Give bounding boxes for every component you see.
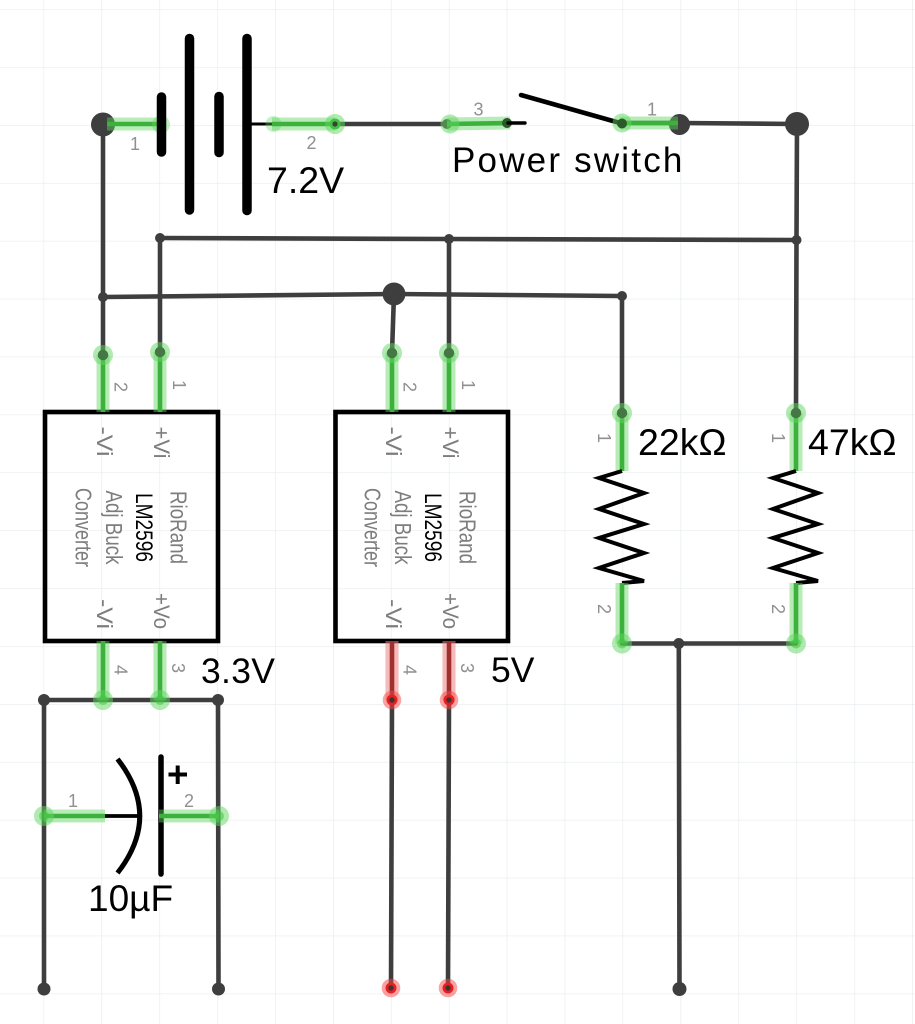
junction x103 y297 [98, 292, 108, 302]
junction x449 y239 [444, 234, 454, 244]
wire node C down to 47k [796, 124, 797, 411]
module U2 pin1 +Vi highlighted [439, 343, 459, 412]
svg-text:2: 2 [306, 133, 316, 153]
junction x796 y240 [792, 235, 802, 245]
wire end dot 44,989 [38, 983, 51, 996]
module U2 red end dot right [439, 979, 458, 998]
svg-text:-Vi: -Vi [92, 427, 117, 457]
svg-text:Converter: Converter [360, 488, 386, 567]
svg-text:5V: 5V [491, 650, 535, 690]
switch S1 pin1 highlighted [613, 114, 679, 133]
svg-text:7.2V: 7.2V [267, 159, 344, 201]
switch S1 lever [521, 95, 620, 123]
svg-text:+Vo: +Vo [438, 593, 463, 629]
junction x160 y238 [155, 233, 165, 243]
capacitor C1 pin2 highlighted [159, 806, 229, 826]
module U2 body [336, 412, 509, 641]
svg-text:4: 4 [111, 665, 131, 675]
svg-text:+Vi: +Vi [438, 427, 463, 459]
svg-text:LM2596: LM2596 [419, 493, 446, 562]
capacitor C1 curved plate [118, 759, 140, 873]
wire end dot 218,700 [212, 694, 224, 706]
svg-text:LM2596: LM2596 [130, 493, 157, 562]
resistor R2 47k pin1 highlighted [786, 403, 806, 471]
capacitor C1 pin1 highlighted [34, 806, 105, 826]
junction x679 y641 [673, 638, 684, 649]
resistor R1 22k pin1 highlighted [612, 403, 632, 471]
svg-text:+Vi: +Vi [149, 427, 174, 459]
wire 22k top [620, 296, 625, 411]
svg-text:Power switch: Power switch [452, 141, 685, 180]
svg-text:-Vi: -Vi [381, 599, 406, 629]
wire top bus battery to switch [335, 122, 447, 127]
capacitor C1 plus sign [169, 766, 188, 785]
resistor R2 pin2 highlighted [786, 583, 806, 654]
svg-text:Converter: Converter [71, 488, 97, 567]
svg-text:3: 3 [457, 663, 477, 673]
svg-text:22kΩ: 22kΩ [638, 421, 727, 463]
svg-text:10µF: 10µF [88, 878, 173, 919]
module U1 pin2 -Vi highlighted [93, 345, 113, 412]
svg-text:RioRand: RioRand [166, 491, 192, 564]
battery BAT1 plates 7.2V [162, 39, 275, 211]
wire switch to node B [621, 121, 680, 126]
svg-text:+Vo: +Vo [149, 593, 174, 629]
svg-text:Adj Buck: Adj Buck [101, 491, 127, 565]
svg-text:3.3V: 3.3V [201, 651, 275, 691]
svg-text:Adj Buck: Adj Buck [390, 491, 416, 565]
wire x160 down [158, 238, 163, 352]
svg-text:-Vi: -Vi [92, 599, 117, 629]
wire node D down [392, 294, 394, 353]
wire end dot 218,989 [212, 983, 225, 996]
svg-text:2: 2 [111, 382, 131, 392]
wire horizontal second bus [160, 238, 796, 240]
svg-text:3: 3 [473, 100, 483, 120]
wire end dot 679,989 [673, 982, 687, 996]
wire divider tap down [676, 644, 681, 990]
wire 5V out right [448, 700, 449, 988]
svg-text:1: 1 [130, 134, 140, 154]
svg-text:1: 1 [68, 791, 78, 811]
wire x449 down [447, 239, 452, 353]
svg-text:2: 2 [400, 382, 420, 392]
module U2 pin2 -Vi highlighted [382, 343, 402, 412]
svg-text:RioRand: RioRand [455, 491, 481, 564]
svg-text:3: 3 [168, 663, 188, 673]
switch S1 terminal dot [502, 118, 512, 128]
module U1 pin1 +Vi highlighted [150, 342, 170, 412]
module U2 red end dot left [382, 979, 401, 998]
svg-text:47kΩ: 47kΩ [808, 421, 897, 463]
svg-text:1: 1 [594, 433, 614, 443]
module U2 pin4 -Vi out highlighted red [383, 641, 402, 709]
module U1 body [45, 412, 218, 641]
svg-text:1: 1 [458, 380, 478, 390]
wire right rail [216, 700, 221, 989]
module U2 pin3 +Vo out highlighted red [440, 641, 459, 709]
resistor R1 pin2 highlighted [612, 583, 632, 654]
svg-text:2: 2 [184, 791, 194, 811]
svg-text:-Vi: -Vi [381, 427, 406, 457]
wire left rail [42, 700, 47, 989]
wire module1 out bottom [44, 698, 218, 703]
wire third bus [103, 294, 622, 297]
node B junction [669, 114, 690, 135]
battery BAT1 pin1 highlighted [107, 116, 170, 134]
wire resistor bottom bus [622, 641, 796, 646]
wire end dot 160,352 [155, 347, 165, 357]
resistor R1 zigzag [599, 471, 644, 583]
wire node A down [101, 124, 106, 355]
capacitor C1 straight plate [158, 757, 164, 874]
node A junction [91, 113, 115, 137]
module U1 pin3 +Vo highlighted [150, 641, 170, 710]
svg-text:1: 1 [768, 433, 788, 443]
svg-text:4: 4 [400, 665, 420, 675]
wire node B to node C [680, 123, 797, 124]
junction x622 y296 [617, 291, 627, 301]
resistor R2 zigzag [773, 471, 818, 583]
svg-text:2: 2 [768, 604, 788, 614]
svg-text:2: 2 [594, 604, 614, 614]
wire end dot 447,124 switch in [442, 119, 452, 129]
capacitor C1 lead [105, 814, 138, 818]
wire end dot 44,700 [38, 694, 50, 706]
wire end dot 103,355 [98, 350, 108, 360]
wire 5V out left [391, 700, 392, 988]
svg-text:1: 1 [169, 380, 189, 390]
node D junction [383, 283, 406, 306]
battery pin2 highlighted [266, 114, 346, 134]
switch S1 pin3 highlighted [441, 115, 511, 134]
module U1 pin4 -Vi out highlighted [93, 641, 113, 710]
svg-text:1: 1 [647, 100, 657, 120]
node C junction [785, 112, 809, 136]
switch S1 stub [508, 121, 525, 124]
